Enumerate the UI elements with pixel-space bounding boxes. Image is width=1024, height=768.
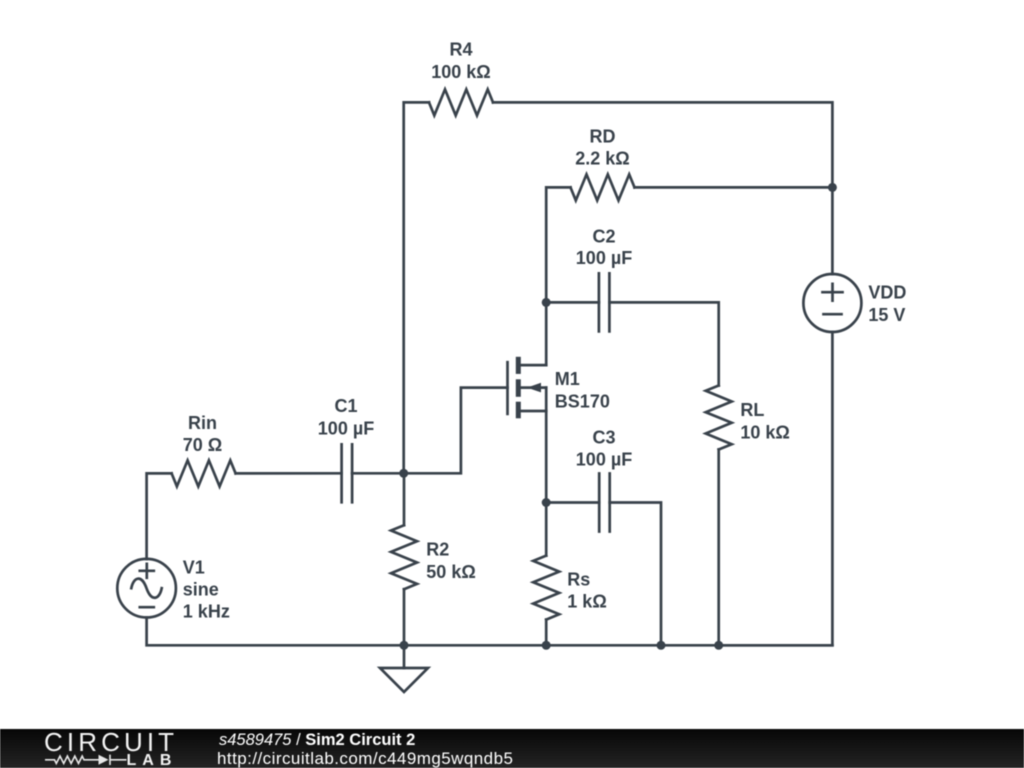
svg-text:2.2 kΩ: 2.2 kΩ: [575, 149, 629, 169]
capacitor C3 left lead: [546, 501, 599, 504]
wire R2 top lead: [403, 473, 406, 525]
svg-text:1 kΩ: 1 kΩ: [567, 592, 606, 612]
node RD-VDD: [828, 183, 837, 192]
transistor M1 gate line: [506, 362, 509, 414]
svg-text:1 kHz: 1 kHz: [183, 602, 230, 622]
resistor R2: [391, 525, 417, 589]
logo CIRCUIT text: [44, 727, 178, 768]
svg-text:LAB: LAB: [127, 752, 178, 768]
svg-text:C2: C2: [592, 227, 615, 247]
wire Rin left lead down to V1: [147, 473, 172, 559]
wire C2 right lead down to RL: [609, 302, 718, 385]
wire M1 source down to Rs: [545, 411, 548, 556]
resistor R4: [429, 89, 493, 115]
M1 body lead: [521, 386, 546, 389]
M1 source lead: [521, 410, 546, 413]
svg-text:VDD: VDD: [868, 283, 906, 303]
svg-text:sine: sine: [183, 580, 219, 600]
node ground-Rs: [542, 641, 551, 650]
node ground-RL: [714, 641, 723, 650]
V1 plus sign: [140, 564, 154, 578]
resistor RL: [706, 386, 732, 450]
ground triangle: [380, 668, 428, 692]
voltage source VDD circle: [803, 274, 861, 332]
svg-text:BS170: BS170: [555, 391, 610, 411]
svg-text:R2: R2: [426, 540, 449, 560]
resistor RD: [571, 174, 635, 200]
svg-text:10 kΩ: 10 kΩ: [740, 423, 789, 443]
wire RD right lead: [635, 186, 833, 189]
svg-text:s4589475 / Sim2 Circuit 2: s4589475 / Sim2 Circuit 2: [219, 731, 415, 749]
resistor Rs: [533, 556, 559, 620]
svg-text:15 V: 15 V: [868, 305, 905, 325]
wire VDD bottom to ground rail: [719, 332, 833, 645]
svg-text:Rin: Rin: [188, 413, 217, 433]
wire C3 right lead down to ground rail: [610, 503, 661, 646]
capacitor C1 right lead: [352, 472, 404, 475]
svg-text:RD: RD: [590, 127, 616, 147]
svg-text:Rs: Rs: [567, 570, 590, 590]
capacitor C2 left lead: [546, 301, 599, 304]
VDD minus sign: [824, 313, 842, 316]
wire R2 bottom lead: [403, 589, 406, 645]
node source-C3: [542, 498, 551, 507]
wire top rail right segment: [493, 102, 832, 274]
logo diode triangle: [99, 755, 109, 765]
svg-text:M1: M1: [555, 369, 580, 389]
wire top rail from R4 to right side: [404, 102, 429, 473]
V1 minus sign: [140, 606, 154, 609]
capacitor C3 plates: [599, 474, 610, 532]
M1 arrow: [527, 383, 541, 393]
svg-text:V1: V1: [183, 558, 205, 578]
svg-text:100 µF: 100 µF: [318, 419, 374, 439]
svg-text:100 µF: 100 µF: [576, 248, 632, 268]
svg-text:C3: C3: [592, 428, 615, 448]
wire Rs bottom lead: [545, 620, 548, 646]
M1 channel bars: [516, 357, 541, 419]
V1 sine wave: [131, 579, 161, 598]
capacitor C2 plates: [599, 273, 610, 331]
svg-text:50 kΩ: 50 kΩ: [426, 562, 475, 582]
node drain-C2: [542, 298, 551, 307]
resistor Rin: [172, 460, 236, 486]
wire RL bottom lead: [717, 450, 720, 646]
capacitor C1 plates: [342, 444, 353, 502]
svg-text:70 Ω: 70 Ω: [183, 435, 222, 455]
VDD plus sign: [823, 284, 843, 301]
wire V1 bottom to ground rail: [147, 618, 833, 646]
node ground-R2: [400, 641, 409, 650]
M1 body-source connector: [545, 388, 548, 411]
svg-text:100 kΩ: 100 kΩ: [431, 62, 490, 82]
node gate-C1-R2-R4: [399, 469, 408, 478]
node ground-C3: [657, 641, 666, 650]
M1 drain lead: [521, 364, 546, 367]
wire gate to input node: [404, 388, 508, 474]
wire RD left lead down to M1 drain: [546, 187, 570, 365]
svg-text:http://circuitlab.com/c449mg5w: http://circuitlab.com/c449mg5wqndb5: [217, 749, 513, 768]
svg-text:R4: R4: [449, 39, 472, 59]
ground stem: [403, 645, 406, 668]
svg-text:C1: C1: [334, 396, 357, 416]
svg-text:100 µF: 100 µF: [576, 450, 632, 470]
logo resistor-diode glyph: [45, 755, 127, 765]
svg-text:RL: RL: [740, 400, 764, 420]
wire Rin right lead to C1: [236, 472, 342, 475]
voltage source V1 circle: [117, 559, 176, 618]
